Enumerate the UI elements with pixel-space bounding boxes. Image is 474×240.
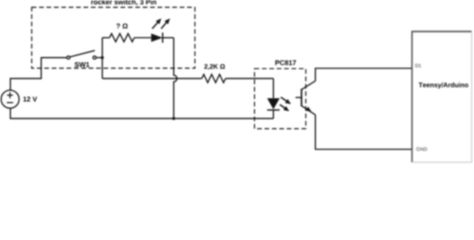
- pin label D1: [415, 64, 421, 67]
- label 2.2K ohm: [204, 64, 225, 70]
- wire 2.2K to opto: [226, 78, 274, 80]
- phototransistor: [296, 81, 316, 115]
- wire collector to D1: [315, 68, 412, 81]
- opto LED: [267, 79, 280, 119]
- label ? ohm: [116, 24, 127, 29]
- opto light arrows: [280, 97, 291, 111]
- label 12 V: [23, 97, 37, 102]
- wire right vertical with hop over middle wire: [174, 38, 177, 119]
- switch SW1: [67, 51, 96, 60]
- junction dot bottom: [172, 117, 175, 120]
- rocker switch dashed box: [32, 7, 195, 68]
- PC817 dashed box: [255, 69, 306, 129]
- wire emitter to GND: [315, 115, 412, 149]
- wire bottom row: [10, 108, 273, 119]
- resistor R?: [110, 34, 135, 42]
- indicator LED: [151, 33, 162, 43]
- Teensy/Arduino box: [412, 32, 472, 163]
- wire LED to corner: [163, 37, 174, 39]
- wire middle row: [102, 78, 202, 80]
- wire node vertical: [101, 38, 103, 79]
- pin label GND: [416, 147, 427, 151]
- wire 12V plus to switch: [10, 58, 67, 91]
- LED light arrows: [152, 18, 170, 28]
- label SW1: [75, 62, 90, 67]
- label PC817: [275, 60, 296, 65]
- junction dot: [101, 56, 104, 59]
- wire top branch left: [102, 37, 109, 39]
- wire switch to node: [96, 57, 102, 59]
- label "rocker switch, 3 Pin": [91, 0, 156, 5]
- voltage source 12V: [1, 90, 19, 108]
- wire resistor to LED: [134, 37, 151, 39]
- label Teensy/Arduino: [419, 82, 469, 88]
- resistor 2.2K: [202, 74, 226, 82]
